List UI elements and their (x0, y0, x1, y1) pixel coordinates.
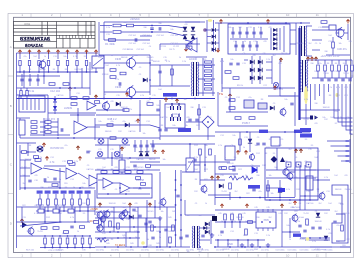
junction (149, 98, 151, 100)
capacitor C32 (119, 82, 121, 85)
junction (156, 246, 158, 248)
svg-text:330: 330 (338, 203, 341, 205)
cap group frame (165, 104, 185, 128)
wire (95, 169, 160, 171)
wire (20, 88, 22, 91)
wire (140, 35, 152, 37)
title block columns (42, 22, 91, 49)
svg-text:330: 330 (256, 217, 259, 219)
transistor Q11 (37, 146, 43, 152)
svg-text:2.2k: 2.2k (106, 27, 110, 29)
wire stub 1 (327, 140, 350, 142)
junction (159, 246, 161, 248)
svg-text:R12: R12 (138, 189, 141, 191)
wire mesh (98, 22, 100, 55)
wire (294, 92, 296, 126)
wire (89, 62, 91, 95)
wire (344, 32, 348, 34)
resistor R100 (79, 199, 82, 205)
svg-text:C45: C45 (254, 207, 257, 209)
junction (130, 98, 132, 100)
svg-text:схема: схема (24, 24, 31, 26)
power flag A3 (219, 20, 222, 24)
wire (146, 200, 148, 247)
net label box v6 (77, 191, 83, 194)
power flag +V6 (66, 50, 69, 54)
svg-text:CX2 104: CX2 104 (122, 49, 129, 51)
wire mesh (300, 195, 318, 197)
capacitor C35 (156, 109, 159, 111)
capacitor C113 (333, 221, 336, 223)
svg-text:R45: R45 (156, 243, 159, 245)
capacitor C122 (148, 221, 151, 223)
snubber group box (228, 24, 290, 54)
svg-text:R22: R22 (246, 193, 249, 195)
svg-text:1N4148: 1N4148 (281, 53, 288, 55)
capacitor C47 (290, 103, 293, 105)
wire (20, 151, 36, 153)
power flag V11 (120, 147, 123, 151)
junction (300, 22, 302, 24)
junction (79, 187, 81, 189)
junction (175, 219, 177, 221)
wire drop (137, 207, 139, 247)
wire (249, 41, 251, 51)
junction (304, 195, 306, 197)
svg-text:104: 104 (334, 175, 337, 177)
wire stub (217, 240, 219, 247)
capacitor C55b (178, 103, 181, 110)
svg-text:R45: R45 (156, 231, 159, 233)
wire (198, 104, 200, 130)
resistor R86 (110, 137, 116, 140)
wire (317, 60, 319, 64)
wire mains top (104, 21, 200, 23)
junction (103, 98, 105, 100)
zone ticks left (8, 76, 14, 194)
diode D45 blue (252, 167, 257, 173)
wire (198, 92, 215, 94)
wire (215, 221, 256, 223)
svg-text:C31: C31 (76, 93, 79, 95)
wire (312, 29, 320, 31)
svg-text:T2 EE19: T2 EE19 (115, 243, 126, 247)
wire (121, 31, 152, 33)
wire harness 3 (314, 84, 316, 100)
wire (29, 66, 31, 72)
power flag A8 (153, 150, 156, 154)
transistor Q14 (160, 199, 166, 205)
svg-text:1k: 1k (244, 41, 246, 43)
svg-text:C10 470u: C10 470u (171, 250, 179, 252)
svg-text:1k: 1k (44, 56, 46, 58)
wire (135, 62, 150, 64)
wire bottom mid bus (215, 197, 295, 199)
wire (276, 148, 278, 170)
junction (19, 71, 21, 73)
svg-text:4.7k: 4.7k (338, 117, 342, 119)
LED D20 (53, 98, 57, 102)
wire (326, 54, 350, 56)
diode D37 (205, 230, 209, 234)
junction (89, 235, 91, 237)
wire (95, 231, 140, 233)
junction (246, 131, 248, 133)
power flag V8 (210, 176, 213, 180)
wire harness 2 (310, 84, 312, 110)
capacitor C120 (132, 209, 135, 211)
junction (289, 231, 291, 233)
wire (78, 173, 88, 179)
svg-text:R8: R8 (305, 71, 307, 73)
svg-text:TL431: TL431 (323, 73, 328, 75)
svg-text:104: 104 (158, 89, 161, 91)
resistor R131 (231, 214, 234, 220)
capacitor C81 (303, 230, 306, 232)
capacitor C102 (164, 229, 167, 231)
svg-text:C945: C945 (115, 85, 122, 89)
svg-text:2.2k: 2.2k (74, 161, 78, 163)
diode D22 (258, 68, 262, 72)
wire mesh (229, 88, 231, 112)
svg-text:1k: 1k (111, 55, 113, 57)
svg-text:1k: 1k (289, 239, 291, 241)
junction (299, 199, 301, 201)
svg-text:470: 470 (102, 189, 105, 191)
svg-text:R55: R55 (64, 183, 67, 185)
resistor R96 (47, 199, 50, 205)
svg-text:R12: R12 (296, 189, 299, 191)
resistor R90 (35, 159, 41, 162)
svg-text:R8: R8 (299, 203, 301, 205)
IC U14 (306, 176, 313, 190)
svg-text:R12: R12 (278, 145, 281, 147)
power flag V6 (245, 204, 248, 208)
junction (59, 187, 61, 189)
wire (207, 42, 211, 44)
junction (113, 226, 115, 228)
svg-text:2k2: 2k2 (234, 191, 237, 193)
svg-text:10k: 10k (228, 27, 231, 29)
wire big loop (332, 185, 348, 243)
svg-text:4.7k: 4.7k (128, 109, 132, 111)
resistor R23 (83, 97, 89, 100)
svg-text:4.7k: 4.7k (116, 65, 120, 67)
transistor Q18 (97, 225, 103, 231)
svg-text:10k: 10k (338, 43, 341, 45)
junction (52, 247, 54, 249)
wire (282, 231, 300, 233)
svg-text:47u: 47u (23, 56, 26, 58)
wire bus (20, 137, 95, 139)
wire (166, 207, 168, 247)
title block rows (14, 25, 96, 41)
wire (48, 54, 50, 60)
junction (189, 143, 191, 145)
resistor R91 (69, 163, 75, 166)
net label box p1 (163, 93, 177, 97)
resistor R191 zigzag (241, 176, 253, 180)
wire pin 1 (22, 98, 24, 110)
wire (130, 157, 160, 159)
svg-text:10k: 10k (63, 56, 66, 58)
wire (95, 124, 150, 126)
wire harness 4 (319, 84, 321, 96)
capacitor C121 (138, 215, 141, 217)
svg-text:C45: C45 (230, 213, 233, 215)
transistor Q17 (97, 212, 103, 218)
svg-text:1k: 1k (179, 57, 181, 59)
junction (137, 231, 139, 233)
svg-text:4.7k: 4.7k (34, 213, 38, 215)
wire (266, 69, 272, 71)
resistor R47 (147, 103, 153, 106)
ground (266, 243, 270, 247)
svg-text:CX2 104: CX2 104 (142, 43, 149, 45)
wire (260, 27, 262, 38)
svg-text:1N4148: 1N4148 (120, 107, 128, 109)
svg-text:KA7500: KA7500 (161, 116, 168, 119)
junction (143, 246, 145, 248)
resistor R110 (99, 219, 102, 225)
capacitor C72 (144, 223, 147, 225)
svg-text:1N4148: 1N4148 (314, 221, 322, 223)
resistor R106 (137, 171, 143, 174)
power flag V3 (78, 157, 81, 161)
svg-text:10k: 10k (123, 22, 126, 24)
svg-text:A: A (10, 45, 12, 49)
junction (117, 231, 119, 233)
wire (71, 194, 73, 199)
wire (20, 167, 30, 169)
svg-text:4.7k: 4.7k (258, 27, 262, 29)
junction (77, 114, 79, 116)
junction (175, 234, 177, 236)
wire mesh (280, 95, 300, 97)
svg-text:C15: C15 (98, 149, 101, 151)
svg-text:KA7500B: KA7500B (292, 206, 301, 209)
transistor Q16 (28, 228, 34, 234)
svg-text:R12: R12 (118, 131, 121, 133)
wire (345, 60, 347, 64)
svg-text:C88: C88 (148, 245, 151, 247)
connector J2 (19, 96, 45, 112)
wire (20, 159, 31, 161)
wire (320, 29, 345, 31)
wire mesh (317, 170, 319, 192)
power flag +V8 (85, 50, 88, 54)
svg-text:R45: R45 (172, 211, 175, 213)
wire (331, 71, 333, 78)
diode D8 (212, 48, 216, 52)
svg-text:330: 330 (102, 159, 105, 161)
svg-text:4.7k: 4.7k (50, 160, 56, 164)
wire (149, 55, 151, 95)
svg-text:B: B (10, 104, 12, 108)
IC U13 pins (258, 209, 273, 231)
wire (26, 96, 28, 99)
svg-text:KA7500: KA7500 (87, 168, 94, 171)
wire (266, 199, 318, 201)
svg-text:47u: 47u (318, 63, 321, 65)
capacitor C55d (178, 114, 181, 121)
junction (69, 87, 71, 89)
wire (215, 173, 238, 175)
svg-text:470: 470 (134, 147, 137, 149)
svg-text:R22: R22 (174, 117, 177, 119)
svg-text:KA7500: KA7500 (75, 68, 82, 71)
svg-text:2k2: 2k2 (104, 215, 107, 217)
wire (322, 26, 329, 28)
capacitor C63 (151, 145, 154, 147)
junction (239, 197, 241, 199)
wire (43, 168, 65, 172)
resistor R85 (107, 124, 113, 127)
resistor R161 (22, 151, 27, 154)
capacitor C55a (171, 103, 174, 110)
wire (281, 210, 283, 247)
svg-text:TL431: TL431 (221, 191, 226, 193)
wire (198, 64, 215, 66)
resistor R60 (229, 99, 235, 102)
wire (306, 25, 312, 27)
junction (257, 239, 259, 241)
capacitor C112 (318, 227, 321, 229)
svg-text:TL431: TL431 (37, 231, 42, 233)
wire (242, 41, 244, 51)
wire (74, 244, 76, 248)
wire (271, 56, 273, 84)
resistor R2 (109, 39, 116, 42)
wire (268, 95, 295, 97)
regulator U7 (271, 137, 280, 146)
svg-text:4.7k: 4.7k (328, 87, 332, 89)
wire (267, 180, 269, 197)
svg-text:220VAC: 220VAC (130, 17, 140, 21)
svg-text:4.7k: 4.7k (115, 79, 119, 81)
svg-text:C10 470u: C10 470u (156, 250, 164, 252)
capacitor C6 (238, 32, 241, 34)
capacitor C110 (86, 151, 89, 153)
wire mesh (222, 87, 295, 89)
diode D3 (191, 27, 195, 31)
title block small column row (60, 35, 92, 38)
capacitor C3 (28, 79, 31, 81)
resistor R116 (53, 227, 59, 230)
capacitor C4 (36, 79, 39, 81)
junction (151, 31, 153, 33)
optocoupler U3 (244, 100, 254, 108)
resistor R113 (151, 225, 154, 231)
diode D1 (183, 27, 187, 31)
capacitor C7 (245, 32, 248, 34)
resistor R40 (205, 61, 212, 63)
wire elbow 2 (338, 84, 353, 122)
svg-text:GND: GND (254, 249, 259, 251)
svg-text:KA7500: KA7500 (129, 130, 136, 133)
svg-text:10k: 10k (284, 99, 287, 101)
svg-text:C5 222: C5 222 (173, 46, 179, 48)
junction (269, 221, 271, 223)
wire (200, 179, 225, 181)
junction (224, 221, 226, 223)
wire (229, 192, 231, 200)
svg-text:C15: C15 (308, 149, 311, 151)
wire (152, 31, 168, 33)
wire (20, 187, 95, 189)
diode D50 (203, 226, 207, 230)
transistor Q9 (283, 169, 289, 175)
svg-text:1N4148: 1N4148 (152, 61, 160, 63)
dark component pair (310, 116, 318, 120)
svg-text:2.2k: 2.2k (182, 61, 186, 63)
junction (133, 226, 135, 228)
svg-text:C45: C45 (278, 213, 281, 215)
wire (104, 62, 126, 64)
wire (266, 187, 278, 189)
dark transistor Q15 (22, 222, 27, 228)
wire (101, 179, 110, 181)
junction (247, 239, 249, 241)
resistor R42 (205, 70, 212, 72)
resistor R105 (125, 171, 131, 174)
svg-text:TL431: TL431 (303, 119, 308, 121)
svg-text:TL431: TL431 (299, 239, 304, 241)
wire (349, 139, 351, 163)
wire (207, 128, 209, 140)
inductor L2 (113, 31, 121, 34)
svg-text:R45: R45 (134, 231, 137, 233)
wire (95, 237, 140, 239)
comparator U5 (92, 56, 104, 68)
power flag +V4 (47, 50, 50, 54)
wire mesh (160, 43, 200, 45)
wire (324, 71, 326, 78)
resistor R151 (209, 149, 212, 155)
wire (39, 194, 41, 199)
resistor R82 (198, 109, 201, 115)
wire (47, 95, 49, 130)
junction (247, 22, 249, 24)
resistor RG132 (45, 131, 51, 134)
resistor R174 (245, 229, 248, 235)
junction (23, 71, 25, 73)
wire mesh (99, 54, 150, 56)
svg-text:2.2k: 2.2k (296, 221, 300, 223)
op-amp U11A (31, 163, 42, 174)
wire (199, 227, 210, 229)
zone ticks bottom (31, 253, 326, 258)
wire mesh (17, 75, 61, 77)
svg-text:C10 470u: C10 470u (111, 250, 119, 252)
resistor R185 (341, 225, 344, 231)
svg-text:10k: 10k (183, 99, 186, 101)
junction (169, 246, 171, 248)
wire (19, 145, 21, 190)
svg-text:C52 1000u: C52 1000u (275, 250, 284, 252)
power flag A2 (164, 98, 167, 102)
wire (94, 190, 96, 215)
wire line N (100, 31, 112, 33)
resistor R3 (38, 61, 40, 66)
wire (140, 140, 142, 152)
net label box 3 (178, 128, 191, 132)
wire (47, 194, 49, 199)
wire (37, 74, 39, 86)
svg-text:R1 330k: R1 330k (105, 42, 115, 46)
svg-text:104: 104 (328, 203, 331, 205)
wire (40, 121, 58, 123)
